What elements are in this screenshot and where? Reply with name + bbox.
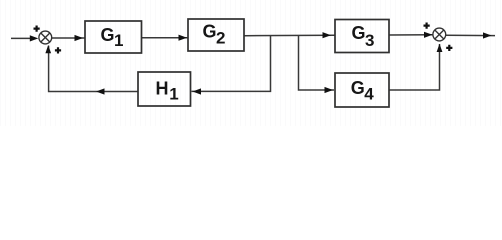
wire S1 to G1: [52, 37, 85, 39]
svg-text:1: 1: [169, 84, 178, 103]
svg-text:G: G: [203, 21, 217, 41]
wire G1 to G2: [142, 37, 189, 39]
svg-text:G: G: [352, 23, 366, 43]
svg-text:4: 4: [364, 84, 374, 103]
arrowhead into S2: [424, 32, 433, 38]
plus sign at S1 input (top): [34, 26, 40, 32]
svg-text:1: 1: [114, 31, 123, 50]
arrowhead G4 branch up into S2 (pointing up): [437, 44, 443, 52]
label G2: [203, 21, 226, 47]
summing junction S1: [39, 31, 52, 44]
svg-text:H: H: [156, 78, 169, 98]
arrowhead input into S1: [30, 35, 39, 41]
label G1: [101, 25, 124, 50]
block G4 box: [335, 73, 389, 107]
wire branch down to H1 (node A vertical): [192, 36, 271, 91]
arrowhead feedback up into S1 (pointing up): [45, 45, 51, 53]
svg-text:G: G: [101, 25, 115, 45]
block G3 box: [335, 20, 389, 53]
plus sign at S2 input (top): [424, 23, 430, 29]
block G2 box: [188, 19, 244, 51]
plus sign at S2 G4-input (bottom): [446, 45, 452, 51]
label G4: [351, 78, 375, 104]
block H1 box: [138, 72, 191, 106]
wire branch down to G4 (node B vertical): [299, 36, 335, 90]
wire G2 to G3: [244, 34, 335, 37]
arrowhead into G4: [325, 87, 334, 93]
wire input R: [11, 37, 36, 39]
svg-text:2: 2: [216, 28, 225, 47]
arrowhead into H1 (pointing left): [193, 88, 202, 94]
arrowhead into G3: [323, 32, 332, 38]
label G3: [352, 23, 375, 50]
wire S2 output C: [446, 34, 495, 36]
arrowhead into G1: [75, 35, 84, 41]
arrowhead feedback mid-line (pointing left): [96, 88, 105, 94]
wire G3 to S2: [389, 34, 433, 36]
svg-text:G: G: [351, 78, 365, 98]
arrowhead output: [483, 32, 492, 38]
plus sign at S1 feedback (bottom): [55, 47, 61, 53]
summing junction S2: [433, 28, 446, 41]
wire H1 feedback to S1: [49, 46, 138, 92]
wire G4 to S2: [389, 44, 440, 90]
label H1: [156, 78, 179, 103]
arrowhead into G2: [179, 35, 188, 41]
svg-text:3: 3: [365, 31, 374, 50]
block G1 box: [85, 21, 142, 53]
